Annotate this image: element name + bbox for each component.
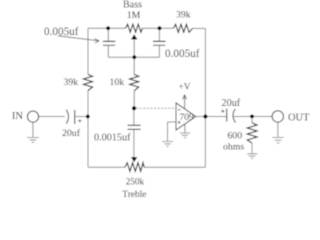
- +V arrowhead: [183, 95, 187, 100]
- op-amp plus sign: [178, 121, 181, 124]
- bass wiper arrow: [131, 34, 138, 39]
- junction node left top: [106, 26, 110, 30]
- wire treble bottom left segment: [88, 166, 125, 168]
- svg-text:ohms: ohms: [223, 141, 244, 152]
- IN port circle: [27, 111, 38, 122]
- op-amp minus sign: [178, 109, 181, 111]
- wire IN ground stem: [32, 122, 34, 137]
- wire right cap bottom stem: [158, 45, 160, 57]
- ground (op-amp + input): [162, 142, 173, 147]
- svg-text:0.005uf: 0.005uf: [44, 26, 79, 38]
- svg-text:IN: IN: [12, 111, 23, 122]
- wire top bus left segment: [88, 27, 126, 29]
- resistor 39k left: [84, 75, 93, 91]
- wire op-amp output lead: [196, 116, 204, 118]
- svg-text:1M: 1M: [127, 10, 141, 21]
- wire left cap top stem: [107, 28, 109, 41]
- svg-text:709: 709: [179, 112, 194, 123]
- wire treble cap top stem: [133, 108, 135, 125]
- wire left cap bottom stem: [107, 45, 109, 57]
- capacitor 0.0015uf plates: [128, 124, 141, 126]
- wire output node to cap: [207, 116, 226, 118]
- wire +V stem: [184, 96, 186, 108]
- wire bass bottom wire: [108, 56, 159, 58]
- capacitor 0.005uf right plates: [153, 40, 166, 42]
- junction node 600: [250, 115, 254, 119]
- wire 10k top stem: [133, 57, 135, 74]
- wire OUT ground stem: [277, 122, 279, 137]
- svg-text:0.0015uf: 0.0015uf: [94, 133, 131, 144]
- junction node right top: [158, 26, 162, 30]
- resistor 10k: [130, 75, 139, 91]
- capacitor 0.005uf left plates: [103, 40, 115, 42]
- wire top bus middle segment: [143, 27, 174, 29]
- resistor 39k top: [174, 24, 193, 32]
- wire top bus right segment: [193, 27, 206, 29]
- annotation arrow 0.005uf: [58, 36, 99, 41]
- wire 600 top stem: [251, 117, 253, 123]
- capacitor 20uf input (curved + straight plate): [66, 110, 68, 124]
- svg-text:Treble: Treble: [122, 190, 146, 200]
- wire noninverting input stem: [167, 122, 169, 141]
- wire left bus lower vertical: [87, 91, 89, 168]
- ground (OUT): [272, 138, 283, 144]
- wire left bus upper vertical: [87, 28, 89, 74]
- svg-text:250k: 250k: [126, 177, 145, 187]
- svg-text:20uf: 20uf: [62, 128, 81, 139]
- OUT port circle: [272, 111, 283, 122]
- ground (op-amp): [180, 133, 191, 138]
- wire noninverting input horizontal: [168, 121, 177, 123]
- svg-text:10k: 10k: [110, 77, 125, 88]
- svg-text:39k: 39k: [64, 77, 79, 88]
- wire treble bottom right segment: [144, 166, 205, 168]
- treble wiper arrow: [131, 157, 137, 162]
- svg-text:39k: 39k: [176, 10, 191, 21]
- wire inverting input (dashed): [136, 107, 176, 109]
- wire treble cap bottom stem: [133, 129, 135, 157]
- wire right cap top stem: [158, 28, 160, 41]
- svg-text:+V: +V: [179, 82, 191, 92]
- capacitor 20uf output (straight + curved plate): [226, 108, 228, 121]
- wire cap to OUT: [234, 116, 272, 118]
- potentiometer R 250k (treble): [125, 163, 144, 172]
- wire bass wiper stem: [133, 39, 135, 57]
- svg-text:20uf: 20uf: [222, 98, 241, 109]
- potentiometer R 1M (bass): [126, 24, 143, 32]
- junction node output: [203, 115, 207, 119]
- wire 600 bottom stem: [251, 143, 253, 153]
- junction node bass bottom: [132, 55, 136, 59]
- wire op-amp ground stem: [184, 125, 186, 133]
- junction node inverting: [132, 106, 136, 110]
- ground (600 ohms): [247, 154, 257, 159]
- wire right feedback bus vertical: [204, 28, 206, 167]
- resistor 600 ohms: [247, 123, 257, 143]
- svg-text:0.005uf: 0.005uf: [165, 48, 200, 60]
- ground (IN): [27, 138, 39, 143]
- output cap + sign: [221, 110, 224, 113]
- svg-text:OUT: OUT: [288, 113, 310, 124]
- input cap + sign: [78, 119, 81, 122]
- svg-text:600: 600: [227, 130, 242, 141]
- wire 10k bottom stem: [133, 91, 135, 108]
- junction node IN: [86, 115, 90, 119]
- op-amp U1 709: [176, 103, 196, 130]
- wire IN to cap: [38, 116, 65, 118]
- wire cap to IN node: [75, 116, 88, 118]
